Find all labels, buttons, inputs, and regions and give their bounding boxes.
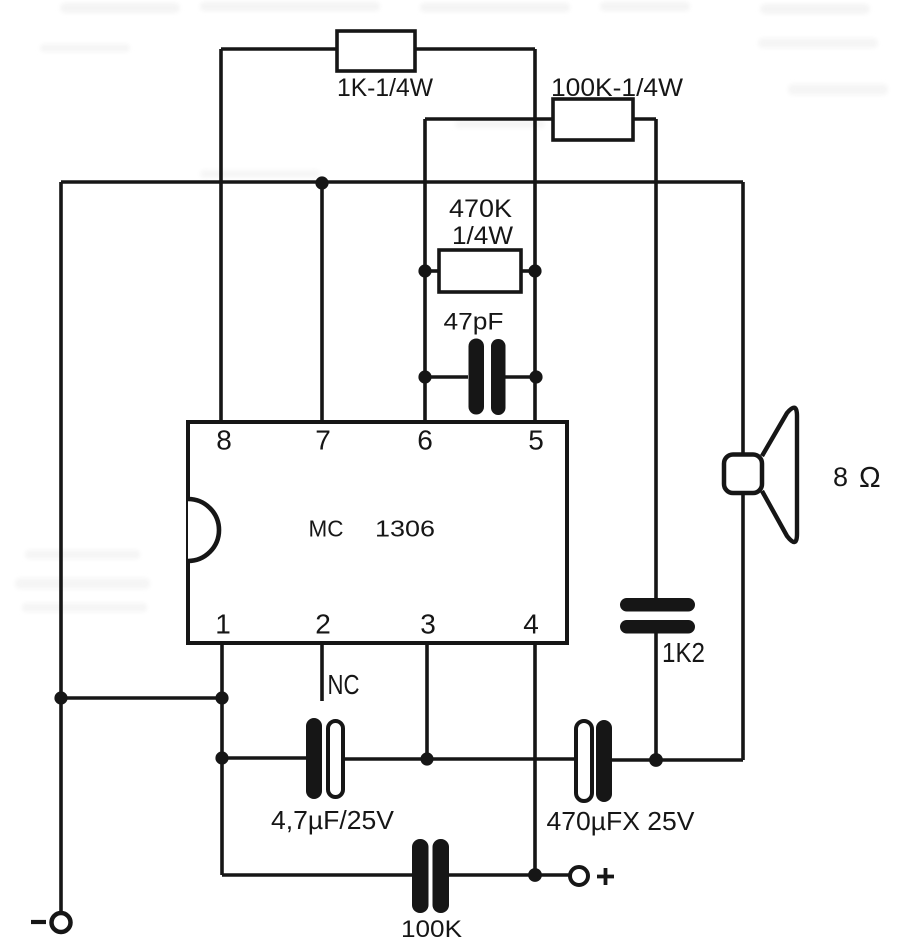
svg-text:1306: 1306 <box>375 516 435 542</box>
svg-text:7: 7 <box>315 425 331 456</box>
capacitor C5 100K right plate <box>433 839 450 913</box>
svg-text:4,7µF/25V: 4,7µF/25V <box>271 805 395 835</box>
svg-text:470K: 470K <box>449 195 512 223</box>
minus sign <box>31 920 46 924</box>
svg-text:1/4W: 1/4W <box>452 222 513 250</box>
wire pin7 from rail to IC <box>320 183 324 422</box>
wire top-left from R1 to vertical <box>221 47 337 51</box>
wire pin1 down <box>220 643 224 875</box>
wire node left rail to pin1 <box>61 696 222 700</box>
capacitor C1 47pF right plate <box>491 339 506 415</box>
resistor R1 1K-1/4W body <box>337 31 415 71</box>
wire C2 right to C3 left <box>343 757 576 761</box>
wire bottom from pin1 to C5 <box>222 873 412 877</box>
junction dot pin1 node <box>215 691 228 704</box>
svg-text:1: 1 <box>215 609 231 640</box>
terminal plus circle <box>570 867 588 885</box>
wire pin4 down <box>533 643 537 875</box>
speaker SPK horn <box>762 408 797 542</box>
svg-text:5: 5 <box>528 425 544 456</box>
wire R3 left lead <box>425 269 439 273</box>
wire vertical pin6 / R2 left <box>423 119 427 422</box>
svg-text:6: 6 <box>417 425 433 456</box>
U1 notch <box>188 499 219 561</box>
wire left rail down to minus terminal <box>59 182 63 913</box>
junction dot C4 bottom node <box>649 753 663 767</box>
capacitor C4 1K2 top plate <box>620 598 695 612</box>
wire pin3 down <box>425 643 429 759</box>
junction dot pin1 to C2 <box>215 751 228 764</box>
wire R1 right to vertical <box>415 47 535 51</box>
wire C5 right to plus terminal <box>449 873 570 877</box>
svg-text:4: 4 <box>523 609 539 640</box>
svg-text:Ω: Ω <box>859 462 881 494</box>
capacitor C2 4,7uF negative plate <box>306 718 322 799</box>
wire R3 right lead <box>521 269 535 273</box>
svg-text:8: 8 <box>216 425 232 456</box>
wire vertical x656 down to C4 top <box>654 119 658 598</box>
wire vertical down to IC pin 5 <box>533 49 537 422</box>
junction dot pin4 bottom <box>528 868 542 882</box>
junction dot R3 left <box>418 264 431 277</box>
svg-text:1K-1/4W: 1K-1/4W <box>337 74 433 102</box>
svg-text:100K-1/4W: 100K-1/4W <box>551 74 683 102</box>
capacitor C5 100K left plate <box>412 839 429 913</box>
svg-text:100K: 100K <box>401 916 462 943</box>
wire C1 right lead <box>506 375 536 379</box>
wire R2 right <box>633 117 656 121</box>
wire C3 right to right rail <box>612 758 743 762</box>
junction dot R3 right <box>528 264 541 277</box>
capacitor C3 470uF negative plate <box>596 720 612 802</box>
wire C2 left lead <box>222 756 306 760</box>
plus sign <box>597 868 614 885</box>
resistor R2 100K-1/4W body <box>553 99 633 140</box>
terminal minus circle <box>52 913 71 932</box>
wire right rail down to speaker and bottom <box>741 182 745 760</box>
capacitor C4 1K2 bottom plate <box>620 620 695 634</box>
junction dot rail to pin7 <box>315 176 328 189</box>
svg-text:470µFX 25V: 470µFX 25V <box>547 806 696 836</box>
wire R2 left horizontal <box>425 117 553 121</box>
junction dot pin3 node <box>420 752 433 765</box>
capacitor C3 470uF positive plate <box>576 721 592 801</box>
resistor R3 470K body <box>439 250 521 292</box>
junction dot rail node <box>54 691 67 704</box>
svg-text:2: 2 <box>315 609 331 640</box>
wire pin2 NC stub <box>320 643 324 701</box>
capacitor C2 4,7uF positive plate <box>328 721 343 797</box>
wire vertical down to IC pin 8 <box>219 49 223 422</box>
svg-text:8: 8 <box>833 462 848 492</box>
svg-text:MC: MC <box>309 516 344 542</box>
wire main horizontal rail node A <box>61 180 743 184</box>
wire C1 left lead <box>425 375 468 379</box>
op-amp U1 MC1306 body <box>188 422 567 643</box>
svg-text:3: 3 <box>420 609 436 640</box>
wire vertical x656 from C4 bottom to node <box>654 633 658 760</box>
junction dot C1 right <box>529 370 542 383</box>
junction dot C1 left <box>418 370 431 383</box>
svg-text:NC: NC <box>328 669 360 700</box>
capacitor C1 47pF left plate <box>469 339 485 415</box>
svg-text:47pF: 47pF <box>444 309 504 336</box>
svg-text:1K2: 1K2 <box>662 637 705 668</box>
speaker SPK box <box>724 455 762 494</box>
